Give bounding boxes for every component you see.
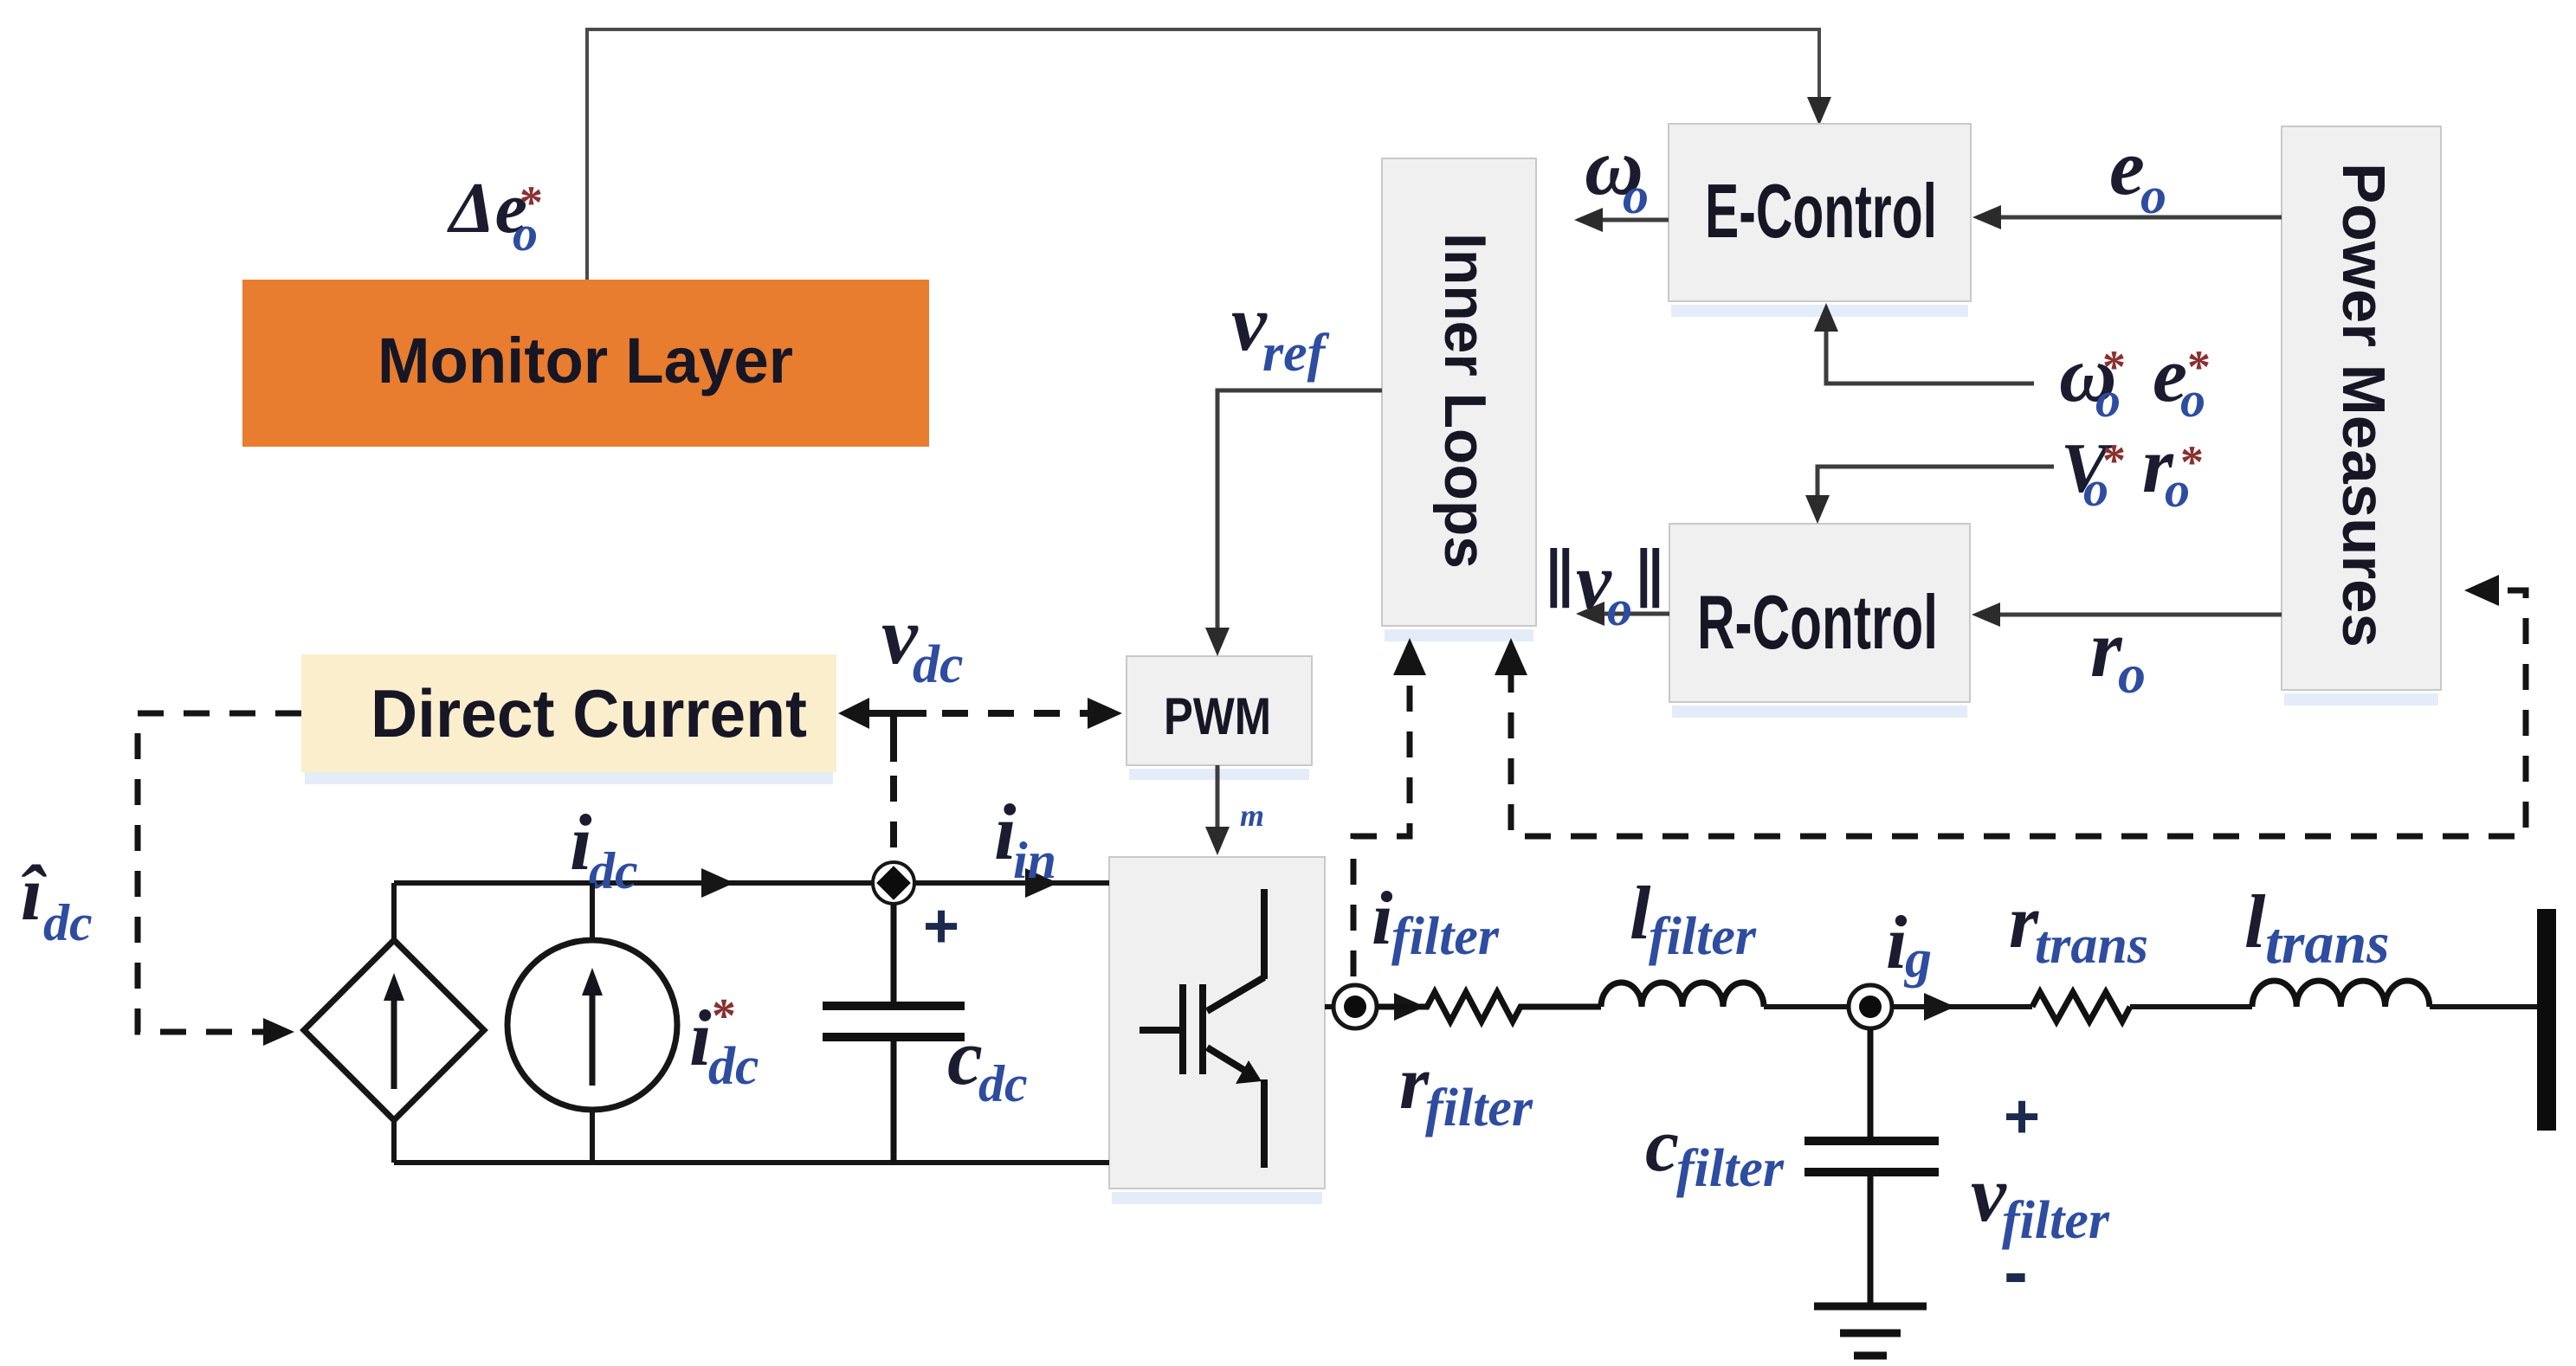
wire v_ref from Inner Loops to PWM	[1217, 390, 1382, 630]
wire monitor feedback top loop	[587, 29, 1819, 280]
dashed sense wire grid measures to Inner Loops and Power Measures	[1511, 590, 2526, 836]
arrow i_g	[1924, 993, 1955, 1021]
svg-text:o: o	[2118, 643, 2146, 705]
Inner Loops block	[1382, 158, 1536, 641]
current source i*_dc (circle)	[507, 883, 677, 1163]
E-Control block	[1669, 124, 1971, 317]
resistor r_trans	[2032, 992, 2130, 1021]
svg-text:‖: ‖	[1635, 531, 1665, 627]
node label dEo*	[447, 168, 543, 261]
PWM block	[1127, 656, 1312, 780]
svg-text:trans: trans	[2035, 916, 2148, 975]
resistor r_filter	[1377, 992, 1601, 1021]
svg-text:dc: dc	[43, 894, 93, 951]
label V*_o r*_o	[2061, 421, 2204, 518]
svg-text:+: +	[2004, 1082, 2040, 1151]
dashed sense wire i_filter to Inner Loops	[1353, 667, 1410, 976]
svg-text:trans: trans	[2265, 910, 2390, 976]
svg-text:*: *	[2187, 341, 2211, 393]
svg-text:+: +	[923, 892, 959, 961]
wire r_o from Power Measures to R-Control	[1998, 613, 2282, 617]
svg-text:o: o	[1623, 167, 1649, 224]
svg-text:o: o	[2140, 167, 2166, 224]
arrow i_in	[1025, 868, 1058, 898]
svg-text:*: *	[2102, 435, 2126, 486]
svg-text:filter: filter	[1649, 907, 1757, 966]
svg-text:Monitor Layer: Monitor Layer	[378, 325, 793, 396]
arrow i_dc	[701, 868, 734, 898]
wire dc top rail i_dc	[394, 880, 1109, 886]
wire omega*_o e*_o reference into E-Control	[1826, 329, 2034, 383]
transistor IGBT symbol	[1140, 889, 1264, 1168]
svg-text:dc: dc	[708, 1037, 759, 1096]
wire r_trans to l_trans	[2130, 1004, 2252, 1009]
svg-text:*: *	[2180, 436, 2204, 488]
capacitor C_dc	[823, 904, 965, 1163]
svg-text:dc: dc	[913, 635, 964, 694]
capacitor c_filter branch	[1804, 1028, 1939, 1306]
svg-text:c: c	[1645, 1104, 1679, 1188]
svg-text:filter: filter	[1425, 1079, 1533, 1137]
svg-text:filter: filter	[1391, 907, 1500, 966]
svg-text:PWM: PWM	[1164, 687, 1271, 745]
svg-text:filter: filter	[1676, 1139, 1785, 1198]
wire e_o from Power Measures to E-Control	[1998, 216, 2282, 220]
svg-text:dc: dc	[978, 1055, 1028, 1112]
converter block	[1109, 857, 1325, 1204]
inductor l_trans	[2252, 981, 2430, 1007]
svg-text:in: in	[1013, 832, 1056, 889]
dashed arrow v_dc into Direct Current	[838, 698, 869, 729]
svg-text:*: *	[2102, 341, 2126, 393]
svg-text:Inner Loops: Inner Loops	[1432, 233, 1498, 569]
dependent current source (diamond)	[304, 883, 484, 1163]
dashed wire v_dc to PWM	[942, 710, 1089, 717]
wire m from PWM to converter	[1216, 765, 1220, 829]
R-Control block	[1669, 524, 1970, 718]
svg-text:*: *	[520, 177, 543, 229]
svg-text:*: *	[712, 989, 736, 1043]
svg-text:l: l	[2244, 880, 2266, 964]
label ||v_o||	[1545, 531, 1665, 636]
svg-text:i: i	[1372, 877, 1393, 961]
label omega*_o e*_o	[2059, 330, 2211, 428]
svg-text:Direct Current: Direct Current	[371, 675, 807, 751]
svg-text:-: -	[2004, 1231, 2028, 1312]
Power Measures block	[2282, 126, 2441, 706]
svg-text:m: m	[1240, 798, 1264, 833]
inductor l_filter	[1601, 983, 1764, 1007]
dashed wire idc estimate loop (left)	[138, 713, 301, 1032]
svg-text:dc: dc	[589, 842, 638, 899]
Monitor Layer block	[242, 280, 929, 447]
ground	[1814, 1306, 1927, 1356]
node i_filter	[1333, 985, 1377, 1028]
arrow omega_o out of E-Control	[1600, 218, 1669, 222]
arrow ||v_o|| out of R-Control	[1602, 612, 1669, 616]
wire V*_o r*_o reference into R-Control	[1817, 467, 2054, 498]
Direct Current block	[305, 772, 833, 784]
arrow i_filter	[1394, 993, 1425, 1021]
svg-text:E-Control: E-Control	[1705, 168, 1937, 254]
node v_dc sensing point	[873, 862, 914, 904]
wire dc bottom rail	[394, 1160, 1109, 1165]
svg-text:e: e	[2109, 123, 2145, 211]
wire l_filter to i_g node	[1764, 1004, 1850, 1009]
wire i_g to r_trans	[1892, 1004, 2032, 1009]
svg-text:c: c	[947, 1013, 983, 1101]
dashed wire v_dc tee	[861, 710, 926, 717]
wire converter to i_filter node	[1325, 1004, 1334, 1009]
svg-text:ref: ref	[1262, 324, 1330, 383]
node i_g	[1849, 985, 1892, 1028]
svg-text:o: o	[1607, 580, 1632, 636]
svg-text:g: g	[1903, 930, 1932, 989]
wire l_trans to grid bus	[2430, 1004, 2539, 1009]
svg-text:R-Control: R-Control	[1697, 579, 1938, 665]
grid bus bar	[2537, 909, 2556, 1131]
svg-text:‖: ‖	[1545, 531, 1575, 627]
svg-text:Power Measures: Power Measures	[2330, 163, 2398, 648]
